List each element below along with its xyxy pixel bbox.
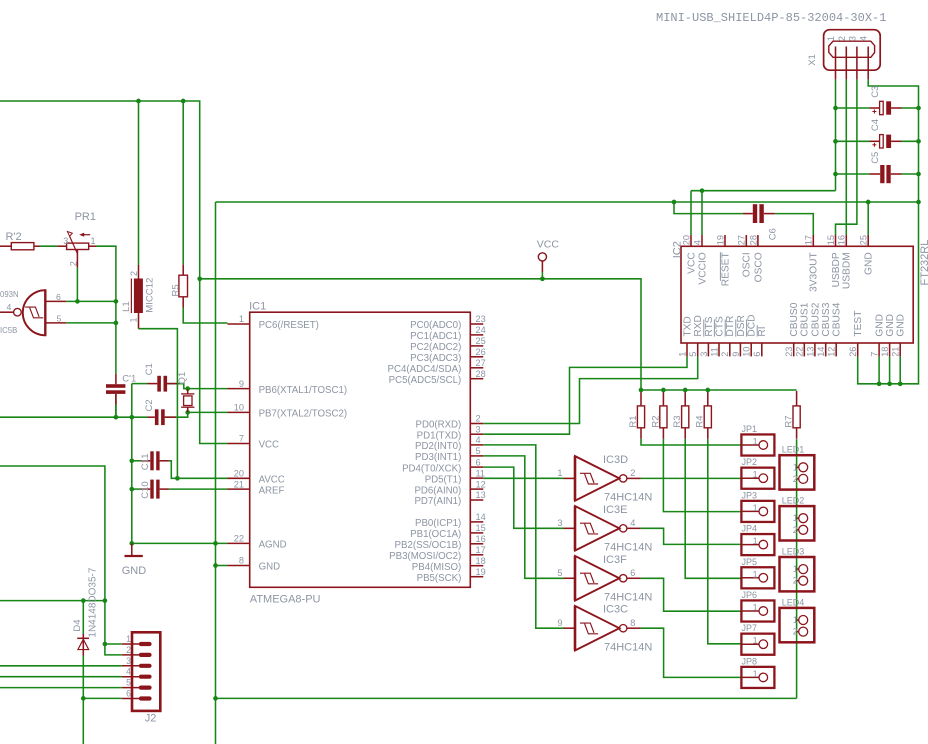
svg-text:PD4(T0/XCK): PD4(T0/XCK): [402, 463, 461, 474]
svg-text:JP3: JP3: [742, 490, 758, 500]
svg-text:1: 1: [753, 636, 758, 646]
svg-text:C5: C5: [870, 152, 881, 164]
svg-text:3V3OUT: 3V3OUT: [809, 252, 820, 292]
svg-text:093N: 093N: [0, 290, 19, 299]
svg-text:PR1: PR1: [75, 211, 96, 223]
svg-text:C4: C4: [870, 119, 881, 131]
svg-text:CBUS3: CBUS3: [821, 302, 832, 336]
svg-text:TXD: TXD: [682, 316, 693, 336]
svg-text:PC5(ADC5/SCL): PC5(ADC5/SCL): [389, 375, 462, 386]
svg-text:CTS: CTS: [714, 316, 725, 337]
svg-text:IC3F: IC3F: [603, 554, 627, 566]
svg-text:1: 1: [753, 603, 758, 613]
svg-text:GND: GND: [122, 565, 147, 577]
svg-text:24: 24: [476, 325, 486, 335]
svg-text:3: 3: [476, 424, 481, 434]
svg-text:12: 12: [476, 479, 486, 489]
svg-text:14: 14: [476, 512, 486, 522]
svg-text:C6: C6: [768, 228, 779, 240]
svg-text:C10: C10: [140, 481, 151, 498]
svg-text:LED2: LED2: [782, 496, 805, 506]
svg-text:12: 12: [827, 347, 837, 357]
svg-text:PD1(TXD): PD1(TXD): [417, 430, 462, 441]
svg-text:PB5(SCK): PB5(SCK): [417, 573, 462, 584]
svg-text:X1: X1: [807, 54, 818, 66]
svg-text:PB1(OC1A): PB1(OC1A): [410, 529, 461, 540]
svg-text:2: 2: [836, 36, 847, 41]
svg-text:C'1: C'1: [122, 373, 136, 384]
svg-text:25: 25: [476, 336, 486, 346]
svg-text:TEST: TEST: [853, 311, 864, 337]
svg-text:DSR: DSR: [736, 315, 747, 337]
svg-text:GND: GND: [885, 314, 896, 337]
svg-text:VCC: VCC: [686, 252, 697, 274]
svg-text:PD5(T1): PD5(T1): [425, 474, 462, 485]
svg-text:1: 1: [793, 513, 798, 523]
svg-text:PC3(ADC3): PC3(ADC3): [410, 353, 461, 364]
svg-text:3: 3: [557, 518, 562, 528]
svg-text:19: 19: [476, 567, 486, 577]
svg-text:PD0(RXD): PD0(RXD): [416, 420, 462, 431]
svg-text:PB2(SS/OC1B): PB2(SS/OC1B): [395, 540, 462, 551]
svg-text:11: 11: [709, 347, 719, 357]
svg-text:5: 5: [476, 446, 481, 456]
svg-text:PC1(ADC1): PC1(ADC1): [410, 331, 461, 342]
svg-text:23: 23: [476, 314, 486, 324]
svg-text:2: 2: [793, 627, 798, 637]
svg-text:R3: R3: [672, 415, 683, 427]
svg-text:AGND: AGND: [259, 540, 287, 551]
svg-text:PC4(ADC4/SDA): PC4(ADC4/SDA): [388, 364, 462, 375]
svg-text:25: 25: [859, 235, 869, 245]
svg-text:MINI-USB_SHIELD4P-85-32004-30X: MINI-USB_SHIELD4P-85-32004-30X-1: [656, 11, 886, 25]
svg-text:1: 1: [793, 462, 798, 472]
svg-text:6: 6: [752, 352, 762, 357]
svg-text:26: 26: [848, 347, 858, 357]
svg-text:10: 10: [742, 347, 752, 357]
svg-text:ATMEGA8-PU: ATMEGA8-PU: [250, 593, 321, 605]
svg-text:Q1: Q1: [177, 372, 188, 385]
svg-text:3: 3: [126, 656, 131, 666]
svg-text:74HC14N: 74HC14N: [604, 542, 652, 554]
svg-text:74HC14N: 74HC14N: [604, 492, 652, 504]
svg-text:RTS: RTS: [704, 316, 715, 336]
svg-text:R2: R2: [650, 415, 661, 427]
svg-text:27: 27: [476, 358, 486, 368]
svg-text:C11: C11: [140, 453, 151, 470]
svg-text:28: 28: [748, 235, 758, 245]
svg-text:LED4: LED4: [782, 597, 805, 607]
svg-text:1: 1: [753, 437, 758, 447]
svg-text:17: 17: [476, 545, 486, 555]
svg-text:74HC14N: 74HC14N: [604, 641, 652, 653]
svg-text:1: 1: [239, 314, 244, 324]
svg-text:22: 22: [234, 534, 244, 544]
svg-text:2: 2: [476, 414, 481, 424]
svg-text:4: 4: [126, 667, 131, 677]
svg-text:1: 1: [677, 352, 687, 357]
svg-text:IC5B: IC5B: [0, 326, 17, 335]
svg-text:1: 1: [753, 569, 758, 579]
svg-text:PD7(AIN1): PD7(AIN1): [414, 496, 461, 507]
svg-text:IC3D: IC3D: [603, 454, 628, 466]
svg-text:R5: R5: [170, 284, 181, 296]
svg-text:GND: GND: [864, 252, 875, 275]
svg-text:5: 5: [126, 678, 131, 688]
svg-text:1: 1: [126, 634, 131, 644]
svg-text:4: 4: [6, 302, 11, 312]
svg-text:6: 6: [630, 568, 635, 578]
svg-text:23: 23: [784, 347, 794, 357]
svg-text:PC0(ADC0): PC0(ADC0): [410, 320, 461, 331]
svg-text:9: 9: [557, 618, 562, 628]
svg-text:R7: R7: [784, 415, 795, 427]
svg-text:USBDP: USBDP: [831, 252, 842, 287]
svg-text:1: 1: [91, 236, 96, 246]
svg-text:RXD: RXD: [693, 315, 704, 337]
svg-text:IC1: IC1: [249, 300, 266, 312]
svg-text:C1: C1: [144, 363, 155, 375]
svg-text:PD2(INT0): PD2(INT0): [415, 441, 461, 452]
svg-text:5: 5: [688, 352, 698, 357]
svg-text:26: 26: [476, 347, 486, 357]
svg-text:15: 15: [476, 523, 486, 533]
svg-text:D4: D4: [72, 619, 83, 631]
svg-text:PB3(MOSI/OC2): PB3(MOSI/OC2): [389, 551, 461, 562]
svg-text:L1: L1: [121, 301, 132, 312]
svg-text:22: 22: [795, 347, 805, 357]
svg-text:7: 7: [870, 352, 880, 357]
svg-text:2: 2: [69, 261, 79, 266]
svg-text:1: 1: [753, 503, 758, 513]
svg-text:PB7(XTAL2/TOSC2): PB7(XTAL2/TOSC2): [259, 409, 347, 420]
svg-text:OSCO: OSCO: [753, 252, 764, 282]
svg-text:9: 9: [239, 379, 244, 389]
svg-text:JP1: JP1: [742, 424, 758, 434]
svg-text:1: 1: [753, 669, 758, 679]
svg-text:1: 1: [825, 36, 836, 41]
svg-text:3: 3: [63, 236, 68, 246]
svg-text:3: 3: [699, 352, 709, 357]
svg-text:6: 6: [126, 689, 131, 699]
svg-text:IC3C: IC3C: [603, 604, 628, 616]
svg-text:74HC14N: 74HC14N: [604, 591, 652, 603]
svg-text:11: 11: [476, 468, 486, 478]
svg-text:9: 9: [731, 352, 741, 357]
svg-text:2: 2: [126, 645, 131, 655]
svg-text:JP4: JP4: [742, 524, 758, 534]
svg-text:JP2: JP2: [742, 457, 758, 467]
svg-text:8: 8: [239, 556, 244, 566]
svg-text:10: 10: [234, 403, 244, 413]
svg-text:19: 19: [715, 235, 725, 245]
svg-text:JP8: JP8: [742, 656, 758, 666]
svg-text:LED3: LED3: [782, 547, 805, 557]
svg-text:7: 7: [239, 434, 244, 444]
svg-text:CBUS2: CBUS2: [810, 302, 821, 336]
svg-text:21: 21: [891, 347, 901, 357]
svg-text:RESET: RESET: [720, 252, 731, 286]
svg-text:1: 1: [793, 564, 798, 574]
svg-text:1: 1: [128, 317, 138, 322]
svg-text:4: 4: [692, 240, 702, 245]
svg-text:AVCC: AVCC: [259, 475, 285, 486]
svg-text:CBUS4: CBUS4: [832, 302, 843, 336]
svg-text:14: 14: [816, 347, 826, 357]
svg-text:2: 2: [793, 576, 798, 586]
svg-text:15: 15: [826, 235, 836, 245]
svg-text:PD6(AIN0): PD6(AIN0): [414, 485, 461, 496]
svg-text:DCD: DCD: [747, 315, 758, 337]
svg-text:GND: GND: [896, 314, 907, 337]
svg-text:GND: GND: [875, 314, 886, 337]
svg-text:VCC: VCC: [537, 239, 560, 251]
svg-text:4: 4: [858, 36, 869, 41]
svg-text:2: 2: [793, 525, 798, 535]
svg-text:2: 2: [793, 474, 798, 484]
svg-text:4: 4: [630, 518, 635, 528]
svg-text:2: 2: [129, 271, 139, 276]
svg-text:16: 16: [476, 534, 486, 544]
svg-text:CBUS0: CBUS0: [789, 302, 800, 336]
svg-text:5: 5: [557, 568, 562, 578]
svg-text:R'2: R'2: [6, 231, 22, 243]
svg-text:2: 2: [630, 468, 635, 478]
svg-text:RI: RI: [757, 326, 768, 336]
svg-text:PB4(MISO): PB4(MISO): [412, 562, 462, 573]
svg-text:IC3E: IC3E: [603, 504, 627, 516]
svg-text:8: 8: [630, 618, 635, 628]
svg-text:4: 4: [476, 435, 481, 445]
svg-text:JP7: JP7: [742, 623, 758, 633]
svg-text:IC2: IC2: [671, 241, 683, 258]
svg-text:18: 18: [880, 347, 890, 357]
svg-text:CBUS1: CBUS1: [800, 302, 811, 336]
svg-text:27: 27: [737, 235, 747, 245]
svg-text:MICC12: MICC12: [145, 278, 156, 313]
svg-text:DTR: DTR: [725, 316, 736, 337]
svg-text:1: 1: [753, 470, 758, 480]
svg-text:J2: J2: [145, 713, 157, 725]
svg-text:FT232RL: FT232RL: [919, 240, 928, 286]
svg-text:PB6(XTAL1/TOSC1): PB6(XTAL1/TOSC1): [259, 385, 347, 396]
svg-text:6: 6: [476, 457, 481, 467]
svg-text:JP5: JP5: [742, 557, 758, 567]
svg-text:3: 3: [846, 36, 857, 41]
svg-text:GND: GND: [259, 562, 281, 573]
svg-text:6: 6: [56, 292, 61, 302]
svg-text:18: 18: [476, 556, 486, 566]
svg-text:2: 2: [720, 352, 730, 357]
svg-text:AREF: AREF: [259, 485, 285, 496]
svg-text:LED1: LED1: [782, 445, 805, 455]
svg-text:PC2(ADC2): PC2(ADC2): [410, 342, 461, 353]
svg-text:1: 1: [753, 536, 758, 546]
svg-text:1N4148DO35-7: 1N4148DO35-7: [87, 567, 98, 637]
svg-text:R1: R1: [628, 415, 639, 427]
svg-text:OSCI: OSCI: [742, 252, 753, 277]
svg-text:5: 5: [57, 313, 62, 323]
svg-text:C3: C3: [870, 86, 881, 98]
svg-text:13: 13: [476, 490, 486, 500]
svg-text:PC6(/RESET): PC6(/RESET): [259, 320, 319, 331]
svg-text:17: 17: [804, 235, 814, 245]
svg-text:28: 28: [476, 369, 486, 379]
svg-text:20: 20: [234, 469, 244, 479]
svg-text:R4: R4: [695, 415, 706, 427]
svg-text:1: 1: [557, 468, 562, 478]
svg-text:USBDM: USBDM: [842, 252, 853, 289]
svg-text:16: 16: [837, 235, 847, 245]
svg-text:PD3(INT1): PD3(INT1): [415, 452, 461, 463]
svg-text:VCCIO: VCCIO: [697, 252, 708, 284]
svg-text:PB0(ICP1): PB0(ICP1): [415, 518, 461, 529]
svg-text:JP6: JP6: [742, 590, 758, 600]
svg-text:VCC: VCC: [259, 440, 279, 451]
svg-text:C2: C2: [144, 399, 155, 411]
svg-text:1: 1: [793, 615, 798, 625]
svg-text:21: 21: [234, 479, 244, 489]
svg-text:13: 13: [805, 347, 815, 357]
